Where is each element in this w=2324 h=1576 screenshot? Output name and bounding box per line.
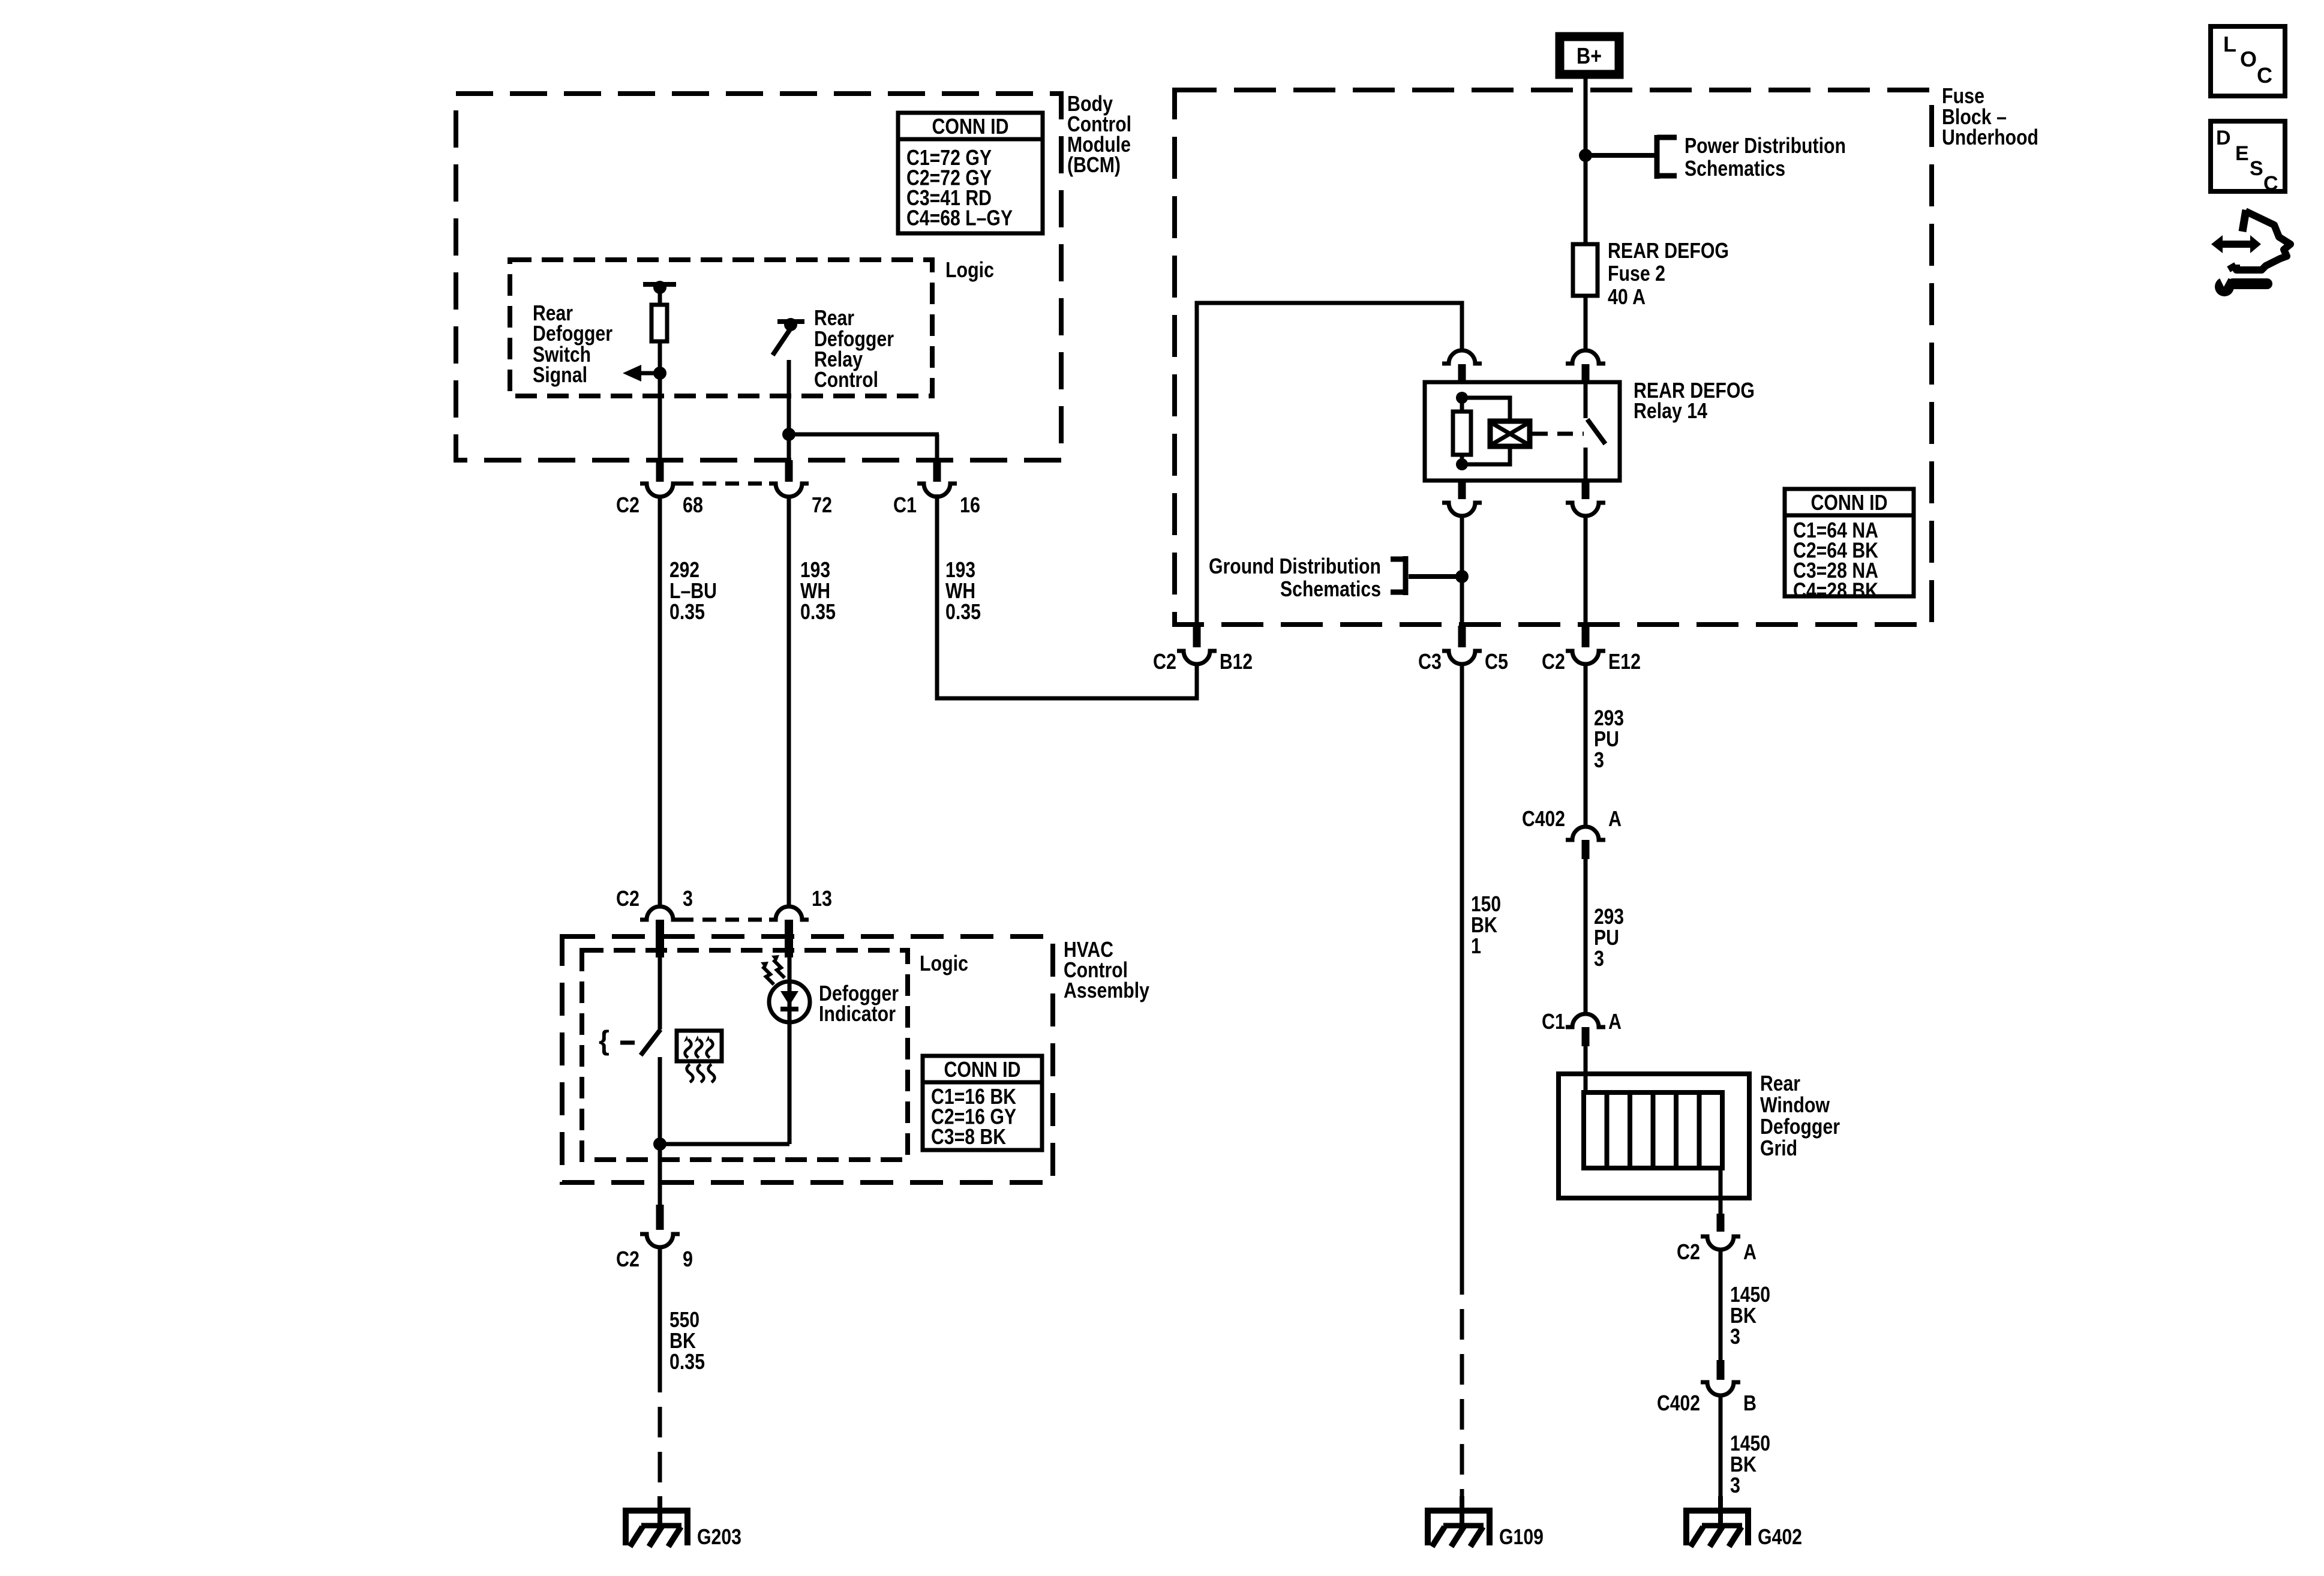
CONN ID table (Fuse Block) [1785, 489, 1914, 603]
wire: grid output down [1719, 1168, 1723, 1214]
connector pin C2-3 [656, 920, 664, 957]
label REAR DEFOG Relay 14 [1634, 378, 1755, 423]
connector arc 72 [769, 484, 809, 497]
svg-text:Schematics: Schematics [1280, 577, 1381, 601]
svg-text:Rear: Rear [1760, 1071, 1800, 1095]
wire: dashed run to G109 [1460, 1264, 1464, 1497]
svg-text:S: S [2250, 157, 2263, 180]
connector pin C2-9 [656, 1205, 664, 1230]
svg-text:C2: C2 [1677, 1239, 1700, 1264]
relay coil resistor [1453, 398, 1471, 464]
wire: switch to junction [787, 360, 791, 434]
connector pin C2-68 [656, 460, 664, 482]
connector arc C1-16 [917, 484, 957, 497]
svg-text:C402: C402 [1522, 806, 1565, 831]
REAR DEFOG Relay 14 box [1425, 382, 1620, 481]
wire: C402-B down to G402 (1450 BK) [1719, 1395, 1723, 1511]
CONN ID table (HVAC) [923, 1056, 1042, 1150]
label Power Distribution Schematics [1685, 133, 1846, 181]
labels C2 / 68 [616, 493, 703, 517]
svg-text:3: 3 [1730, 1473, 1740, 1497]
wire: B+ down to fuse [1584, 79, 1588, 244]
svg-text:Indicator: Indicator [819, 1001, 896, 1026]
resistor (rear defogger switch signal pull-up) [651, 305, 667, 341]
relay actuation dashed link [1532, 432, 1584, 436]
svg-text:C: C [2257, 63, 2272, 88]
HVAC Control Assembly dashed box [562, 936, 1053, 1182]
label 72 [812, 493, 832, 517]
svg-text:Ground Distribution: Ground Distribution [1209, 554, 1381, 578]
svg-text:72: 72 [812, 493, 832, 517]
svg-text:L: L [2223, 32, 2236, 56]
wire: dot to resistor [658, 287, 662, 305]
connector pin C1-16 [933, 460, 941, 482]
switch blade (BCM logic relay control) [773, 329, 790, 355]
svg-text:C2: C2 [616, 493, 639, 517]
signal arrow (points left) [623, 365, 666, 382]
junction dot power distribution tap [1579, 149, 1592, 162]
svg-text:O: O [2240, 47, 2257, 71]
node: switch-signal top tick [643, 282, 676, 287]
Fuse Block - Underhood dashed box [1175, 90, 1932, 625]
wire: E12 down (293 PU) [1584, 664, 1588, 828]
svg-text:C2: C2 [1542, 649, 1565, 674]
wire: B12 riser to relay coil feed [1197, 303, 1462, 626]
svg-text:0.35: 0.35 [669, 599, 705, 624]
wire: junction to LED branch [660, 1142, 789, 1146]
svg-text:(BCM): (BCM) [1067, 152, 1121, 177]
svg-text:Schematics: Schematics [1685, 156, 1785, 181]
svg-text:Fuse 2: Fuse 2 [1608, 261, 1665, 286]
wire label 193 WH 0.35 (a) [800, 557, 836, 624]
svg-text:C3=8 BK: C3=8 BK [931, 1124, 1006, 1149]
LED cathode bar [780, 1007, 798, 1011]
label HVAC Control Assembly [1064, 937, 1149, 1002]
wire: 193 WH down to HVAC connector 13 [787, 496, 791, 906]
relay solenoid X-box [1490, 421, 1530, 446]
CONN ID table (BCM) [898, 113, 1043, 233]
connector arc C1-A [1566, 1014, 1605, 1027]
connector pin C3-C5 [1458, 626, 1466, 647]
svg-text:E12: E12 [1608, 649, 1641, 674]
fuse REAR DEFOG Fuse 2 40A [1573, 244, 1598, 296]
svg-text:3: 3 [683, 886, 693, 911]
svg-text:3: 3 [1730, 1324, 1740, 1349]
svg-text:3: 3 [1594, 946, 1604, 971]
relay switch bottom pin [1582, 481, 1590, 499]
relay switch bottom connector arc [1566, 503, 1605, 516]
wire: 193 WH from C1-16 down, east, up to fuse block B12 [937, 494, 1197, 698]
wire: arrow junction to BCM pin 68 [658, 373, 662, 461]
wire label 1450 BK 3 (b) [1730, 1431, 1770, 1497]
connector pin C2-B12 [1193, 626, 1201, 647]
connector arc 13 [769, 906, 809, 920]
svg-text:D: D [2216, 127, 2231, 149]
wire: dashed run to G203 [658, 1362, 662, 1497]
wire label 293 PU 3 (b) [1594, 904, 1624, 971]
relay switch-side top connector arc [1566, 350, 1605, 364]
connector arc C2-B12 [1177, 651, 1217, 664]
svg-text:C402: C402 [1657, 1391, 1700, 1415]
svg-text:0.35: 0.35 [669, 1349, 705, 1374]
svg-text:G203: G203 [697, 1524, 741, 1549]
wire: junction east to pin 16 drop [789, 433, 939, 437]
svg-text:Control: Control [814, 367, 878, 392]
svg-text:C1: C1 [893, 493, 917, 517]
labels C2 / 9 [616, 1247, 693, 1271]
svg-text:1: 1 [1471, 933, 1481, 958]
connector arc C3-C5 [1442, 651, 1482, 664]
label REAR DEFOG Fuse 2 40 A [1608, 238, 1729, 309]
relay coil bottom pin [1458, 481, 1466, 499]
svg-text:C4=68 L–GY: C4=68 L–GY [906, 206, 1013, 230]
labels C2 / E12 [1542, 649, 1641, 674]
BCM Logic dashed box [510, 260, 932, 396]
wire: C402-A to C1-A (293 PU) [1584, 859, 1588, 1013]
defogger grid bars [1607, 1092, 1700, 1168]
wire: fuse to relay pin [1584, 296, 1588, 350]
svg-text:0.35: 0.35 [945, 599, 981, 624]
label 13 [812, 886, 832, 911]
wire: relay coil return down to C3-C5 [1460, 516, 1464, 626]
svg-text:C2: C2 [616, 1247, 639, 1271]
svg-text:Power Distribution: Power Distribution [1685, 133, 1846, 158]
connector arc C2-68 [640, 484, 680, 497]
defogger indicator LED circle [769, 981, 810, 1022]
relay switch-side top pin [1582, 364, 1590, 382]
wire label 292 L-BU 0.35 [669, 557, 717, 624]
labels C402 / A [1522, 806, 1622, 831]
B+ battery feed box [1560, 37, 1619, 74]
wire label 293 PU 3 (a) [1594, 706, 1624, 772]
HVAC Logic dashed box [582, 950, 908, 1160]
same-connector dashed link 3-13 [680, 918, 769, 922]
labels C2 / 3 [616, 886, 693, 911]
junction dot above resistor [653, 281, 666, 294]
svg-text:C5: C5 [1485, 649, 1508, 674]
svg-text:Signal: Signal [533, 362, 587, 387]
ground distribution junction dot [1455, 570, 1469, 583]
label Rear Window Defogger Grid [1760, 1071, 1840, 1160]
svg-text:16: 16 [960, 493, 980, 517]
connector arc C2-3 [640, 906, 680, 920]
wire: junction to BCM pin 72 [787, 434, 791, 461]
svg-text:Grid: Grid [1760, 1136, 1797, 1160]
relay switch blade [1587, 419, 1605, 444]
wire label 1450 BK 3 (a) [1730, 1282, 1770, 1349]
svg-text:9: 9 [683, 1247, 693, 1271]
ground G402 [1683, 1496, 1802, 1549]
wire label 150 BK 1 [1471, 891, 1501, 958]
svg-text:C: C [2263, 172, 2278, 195]
relay coil-side top pin [1458, 364, 1466, 382]
connector pin 13 [785, 920, 793, 957]
relay coil bypass loop [1462, 398, 1510, 464]
svg-text:68: 68 [683, 493, 703, 517]
labels C2 / B12 [1153, 649, 1253, 674]
svg-text:C2: C2 [616, 886, 639, 911]
relay switch lower lead [1584, 448, 1588, 481]
wire: junction to ground-distribution bracket [1409, 574, 1462, 579]
defogger grid element box [1584, 1092, 1722, 1168]
connector pin C1-A [1582, 1027, 1590, 1046]
label Rear Defogger Switch Signal [533, 301, 612, 387]
label Ground Distribution Schematics [1209, 554, 1381, 601]
svg-text:B12: B12 [1220, 649, 1253, 674]
wire label 193 WH 0.35 (b) [945, 557, 981, 624]
svg-text:Underhood: Underhood [1942, 125, 2038, 149]
wire: C5 down (150 BK) [1460, 664, 1464, 1264]
svg-text:Logic: Logic [920, 951, 968, 975]
label Defogger Indicator [819, 981, 899, 1026]
svg-text:C3: C3 [1418, 649, 1442, 674]
wire: C1-A into defogger grid [1584, 1046, 1588, 1095]
relay coil bottom connector arc [1442, 503, 1482, 516]
svg-text:CONN ID: CONN ID [932, 114, 1009, 139]
wire: pin 3 to defogger switch [658, 957, 662, 1029]
Rear Window Defogger Grid outer box [1559, 1074, 1749, 1198]
svg-text:Defogger: Defogger [1760, 1114, 1840, 1139]
ground distribution reference bracket [1391, 556, 1406, 595]
label Body Control Module (BCM) [1067, 91, 1131, 177]
wire: C2-9 down (550 BK) [658, 1247, 662, 1362]
svg-text:40 A: 40 A [1608, 284, 1646, 309]
wire: junction down to pin C2-9 [658, 1144, 662, 1205]
wire: pin 13 through LED to junction line [788, 957, 792, 1144]
relay control node dot [784, 318, 797, 331]
svg-text:A: A [1608, 806, 1622, 831]
relay coil top junction dot [1456, 392, 1468, 404]
heated rear window icon box [677, 1031, 722, 1082]
connector pin C402-A [1582, 840, 1590, 859]
connector arc C2-E12 [1566, 651, 1605, 664]
labels C3 / C5 [1418, 649, 1508, 674]
ground G203 [623, 1496, 741, 1549]
wire: tap to power-distribution bracket [1586, 153, 1657, 158]
svg-text:REAR DEFOG: REAR DEFOG [1608, 238, 1729, 263]
connector arc C402-B [1701, 1382, 1740, 1395]
svg-text:{: { [599, 1025, 609, 1056]
svg-text:C2: C2 [1153, 649, 1176, 674]
svg-text:B+: B+ [1577, 44, 1602, 69]
wire: switch to junction [658, 1057, 662, 1144]
label Fuse Block - Underhood [1942, 83, 2038, 149]
connector arc C2-9 [640, 1234, 680, 1247]
defogger switch dashed actuator tick [620, 1041, 635, 1045]
svg-text:CONN ID: CONN ID [1811, 490, 1888, 515]
svg-text:CONN ID: CONN ID [944, 1057, 1021, 1082]
svg-text:Assembly: Assembly [1064, 978, 1149, 1002]
svg-text:13: 13 [812, 886, 832, 911]
defogger switch blade [641, 1029, 660, 1055]
wire label 550 BK 0.35 [669, 1307, 705, 1374]
LOC icon box [2211, 26, 2285, 96]
relay coil-side top connector arc [1442, 350, 1482, 364]
connector repair icon (double arrow, connector outline, wrench) [2211, 210, 2290, 296]
connector pin 72 [785, 460, 793, 482]
power distribution reference bracket [1657, 135, 1677, 179]
connector arc C2-A [1701, 1236, 1740, 1250]
labels C2 / A (grid) [1677, 1239, 1756, 1264]
relay coil bottom junction dot [1456, 458, 1468, 470]
labels C1 / 16 [893, 493, 980, 517]
connector pin C402-B [1717, 1360, 1725, 1380]
connector pin C2-A [1717, 1214, 1725, 1232]
svg-text:E: E [2235, 142, 2249, 165]
node: relay-control tick [777, 319, 804, 324]
wire: C2-A down (1450 BK) [1719, 1250, 1723, 1360]
ground G109 [1425, 1496, 1544, 1549]
junction dot (relay control branch) [782, 428, 795, 441]
label Rear Defogger Relay Control [814, 305, 894, 392]
LED triangle [780, 991, 798, 1005]
wire: resistor to arrow junction [658, 341, 662, 373]
svg-text:G402: G402 [1758, 1524, 1802, 1549]
svg-text:Logic: Logic [945, 257, 994, 282]
wire: 292 L-BU down to HVAC connector C2-3 [658, 496, 662, 906]
LED emission arrows [761, 955, 785, 984]
svg-text:A: A [1743, 1239, 1756, 1264]
junction dot (switch/LED common) [653, 1137, 666, 1151]
connector pin C2-E12 [1582, 626, 1590, 647]
Body Control Module (BCM) dashed box [456, 94, 1061, 460]
svg-text:Relay 14: Relay 14 [1634, 398, 1707, 423]
wire: drop to BCM pin C1-16 [935, 434, 939, 461]
labels C402 / B [1657, 1391, 1756, 1415]
svg-text:C1: C1 [1542, 1009, 1565, 1034]
svg-text:B: B [1743, 1391, 1756, 1415]
svg-text:3: 3 [1594, 748, 1604, 772]
relay switch contact upper lead [1584, 382, 1588, 418]
connector arc C402-A [1566, 827, 1605, 840]
DESC icon box [2211, 121, 2285, 195]
svg-text:0.35: 0.35 [800, 599, 836, 624]
svg-text:Window: Window [1760, 1092, 1830, 1117]
wire: relay switch output down to C2-E12 [1584, 516, 1588, 626]
svg-text:A: A [1608, 1009, 1622, 1034]
labels C1 / A [1542, 1009, 1622, 1034]
same-connector dashed link 68-72 [680, 482, 769, 486]
svg-text:C4=28 BK: C4=28 BK [1793, 578, 1878, 603]
svg-text:G109: G109 [1499, 1524, 1544, 1549]
